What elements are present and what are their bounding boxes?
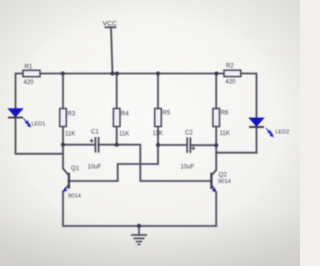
wire top rail [40, 73, 224, 75]
wire LED1 cathode to node A [16, 118, 64, 154]
wire C1 right to corner [98, 145, 211, 181]
svg-text:10uF: 10uF [181, 165, 195, 171]
wire R3 bottom to collector [62, 127, 64, 169]
node C2-R6 [214, 143, 218, 147]
svg-text:Q2: Q2 [219, 172, 228, 179]
ground [131, 226, 147, 244]
svg-text:R3: R3 [68, 112, 76, 118]
svg-text:420: 420 [226, 80, 237, 86]
capacitor C2 [181, 131, 196, 171]
svg-text:420: 420 [24, 80, 35, 86]
wire R5 bottom lead [157, 127, 159, 146]
wire Q2 emitter lead [215, 192, 217, 226]
LED LED2 [249, 118, 289, 136]
svg-text:R5: R5 [163, 111, 171, 117]
resistor R4 [113, 109, 129, 138]
svg-text:9014: 9014 [218, 179, 232, 185]
svg-text:LED2: LED2 [276, 130, 290, 136]
node rail-R3 [61, 72, 65, 76]
node rail-R4 [115, 72, 119, 76]
svg-text:11K: 11K [153, 131, 163, 137]
svg-text:Q1: Q1 [71, 165, 80, 172]
transistor Q1 [62, 165, 81, 200]
wire C2 left [158, 144, 187, 146]
svg-text:VCC: VCC [103, 21, 117, 28]
svg-text:C2: C2 [185, 131, 193, 137]
LED LED1 [8, 109, 45, 128]
node C2-R5 [156, 143, 160, 147]
resistor R2 [224, 63, 241, 85]
wire C2 right [190, 144, 216, 146]
svg-text:R6: R6 [221, 111, 229, 117]
wire R4 bottom lead [116, 127, 118, 145]
resistor R3 [60, 109, 76, 138]
svg-text:R4: R4 [121, 112, 129, 118]
node rail-VCC [111, 72, 115, 76]
wire R5 lead [157, 74, 159, 109]
node junction dots [61, 72, 219, 229]
resistor R5 [153, 109, 171, 138]
svg-text:R1: R1 [25, 65, 33, 71]
wire bottom rail [63, 225, 216, 227]
wire node2 to Q1 base (crossover) [69, 145, 158, 181]
wire R6 lead [215, 74, 217, 109]
wire R6 bottom / Q2 collector lead [215, 127, 217, 170]
node ground [137, 224, 141, 228]
capacitor C1 [88, 129, 102, 170]
wire R1 left lead [16, 74, 24, 109]
wire LED2 cathode to Q2 collector [216, 152, 256, 154]
wire R4 lead [116, 74, 118, 109]
svg-text:10uF: 10uF [88, 165, 102, 171]
svg-text:11K: 11K [220, 131, 230, 137]
resistor R1 [23, 65, 40, 86]
svg-text:R2: R2 [226, 63, 234, 69]
node rail-R6 [215, 72, 219, 76]
svg-text:11K: 11K [65, 132, 75, 138]
svg-text:11K: 11K [119, 132, 129, 138]
svg-text:C1: C1 [91, 129, 99, 135]
svg-text:LED1: LED1 [32, 122, 46, 128]
wire C1 left [63, 144, 95, 146]
node C1-R4 [115, 143, 119, 147]
svg-text:9014: 9014 [68, 194, 82, 200]
wire R3 lead / Q1 collector lead [62, 74, 64, 109]
power VCC symbol [106, 27, 116, 73]
wire LED2 anode [256, 127, 258, 153]
node C1-R3 [61, 143, 65, 147]
wire Q1 emitter lead [62, 192, 64, 227]
node rail-R5 [156, 72, 160, 76]
wire R2 right lead [241, 74, 257, 118]
resistor R6 [213, 109, 230, 138]
transistor Q2 [211, 170, 231, 193]
